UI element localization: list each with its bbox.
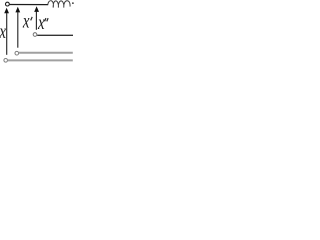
svg-text:x: x	[0, 19, 7, 42]
svg-text:x: x	[22, 9, 30, 32]
terminal circle bottom-left	[4, 59, 8, 63]
wire top horizontal	[10, 4, 49, 6]
svg-text:x: x	[37, 10, 45, 33]
inductor L1 coil	[48, 1, 70, 8]
wire bottom horizontal	[8, 59, 73, 61]
arrow 1 shaft (wire)	[6, 13, 8, 55]
wire middle horizontal	[19, 52, 73, 54]
arrow 3 head	[34, 6, 39, 12]
prime mark of x'	[31, 17, 33, 21]
terminal circle top-left	[6, 2, 10, 6]
arrow 1 head	[4, 8, 9, 14]
arrow 3 shaft (wire)	[35, 12, 37, 30]
terminal circle middle	[15, 51, 19, 55]
arrow 2 shaft (wire)	[17, 12, 19, 48]
wire right horizontal	[37, 34, 73, 36]
coil continuation dot at edge	[72, 2, 74, 4]
arrow 2 head	[15, 7, 20, 13]
prime marks of x''	[45, 18, 46, 21]
terminal circle right	[33, 33, 37, 37]
